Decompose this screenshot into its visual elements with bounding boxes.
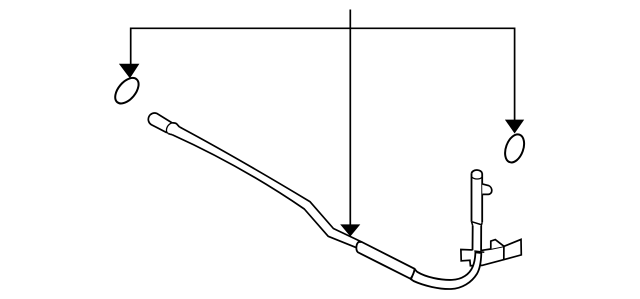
wire leader horizontal line with left and right drops [131,28,515,120]
grommet ellipse left [111,74,143,108]
rod main shaft bottom edge [172,135,357,248]
arrowhead right [505,120,524,134]
pin taper [472,222,483,226]
arrowhead center [340,224,360,236]
pin base ferrule line [474,251,484,252]
grommet ellipse right [502,132,528,165]
pin dome cap [472,170,483,173]
cable lower curve [411,252,481,289]
arrowhead left [119,64,139,79]
rod main shaft top edge [179,127,361,242]
pin cap seam [472,177,482,179]
rod grip ball joint line [166,123,172,134]
bracket strap [461,239,521,265]
wire leader vertical center line [349,10,351,225]
rod grip [148,113,179,135]
pin white body fill [472,170,483,252]
pin upper section edges [472,173,483,222]
pin lower section edges [473,226,482,251]
pin side nub [482,184,492,195]
sleeve on rod [356,242,414,279]
bracket fold line [503,246,505,259]
bracket tab [491,240,504,249]
